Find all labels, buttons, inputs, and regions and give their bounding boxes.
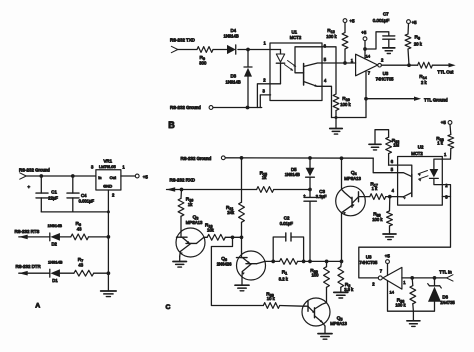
resistor R10 100k [333, 94, 351, 111]
wire RXD line [167, 189, 257, 191]
resistor R16 1k [178, 190, 193, 232]
wire VR1 GND down [107, 190, 109, 212]
diode D4 1N914B [224, 28, 239, 54]
junction [308, 156, 312, 160]
svg-text:+5: +5 [350, 19, 356, 24]
resistor R9 300 [197, 47, 213, 66]
VR1 pin 1 label [122, 165, 125, 170]
svg-text:MPSA13: MPSA13 [344, 176, 361, 181]
svg-text:+5: +5 [143, 174, 149, 179]
svg-text:3.9 k: 3.9 k [344, 287, 354, 292]
U1 pin 6 label [324, 44, 327, 49]
wire [19, 272, 50, 274]
wire U1 pin5 to U3 input [322, 62, 356, 64]
diode D1 1N914B [48, 259, 63, 283]
resistor R22 1M [375, 130, 400, 165]
junction [107, 235, 111, 239]
svg-text:TTL In: TTL In [439, 270, 452, 275]
svg-text:14: 14 [390, 290, 395, 295]
svg-text:100: 100 [312, 273, 320, 278]
junction [246, 106, 250, 110]
svg-text:+5: +5 [385, 254, 391, 259]
capacitor C2 0.01uF [273, 216, 303, 262]
capacitor C3 3.3uF [303, 189, 327, 262]
U2 pin 3 label [445, 194, 448, 199]
ground (section B) [330, 118, 343, 135]
U1 pin 4 label [324, 78, 327, 83]
svg-text:RS-232 RXD: RS-232 RXD [170, 178, 195, 183]
wire RS-232 ground rail (C) [225, 157, 373, 159]
power +5 terminal (A output) [135, 174, 148, 179]
svg-text:GND: GND [103, 184, 112, 189]
svg-text:1M: 1M [393, 142, 399, 147]
node RS-232 TXD input [170, 37, 195, 52]
U2 pin 2 label [445, 183, 448, 188]
svg-text:Out: Out [110, 175, 117, 180]
junction [271, 260, 275, 264]
svg-text:U3: U3 [383, 71, 389, 76]
U2 pin 1 label [444, 152, 447, 157]
wire [178, 49, 197, 51]
resistor R28 100k [372, 197, 392, 234]
ground (Q3) [173, 262, 187, 268]
svg-text:C4: C4 [81, 193, 87, 198]
U2 light arrows [418, 171, 428, 182]
svg-text:LM78L05: LM78L05 [99, 164, 116, 169]
inverter U3 74HCT05 (B) [356, 54, 395, 81]
resistor R15 1k [257, 171, 274, 193]
node RS-232 RTS [15, 229, 40, 239]
svg-text:1N914B: 1N914B [226, 80, 241, 85]
U1 internal LED [270, 50, 285, 84]
wire TTL ground rail [332, 117, 367, 119]
ground (Q5) [318, 334, 332, 340]
svg-text:B: B [168, 120, 175, 130]
junction [180, 188, 184, 192]
resistor R17 1k [370, 181, 386, 199]
wire U1 pin 4 to TTL ground rail [322, 86, 332, 117]
wire [238, 49, 270, 51]
resistor R8 20k [405, 24, 423, 66]
svg-text:D6: D6 [442, 294, 448, 299]
transistor Q4 MPSA13 [336, 158, 366, 261]
wire (A bottom rail) [41, 211, 108, 213]
svg-text:43: 43 [77, 226, 82, 231]
svg-text:1 k: 1 k [437, 141, 443, 146]
svg-text:RS-232 Ground: RS-232 Ground [19, 167, 50, 172]
wire U3C pin 14 down [388, 281, 414, 312]
section label B [168, 120, 175, 130]
U3C pin 7 label [380, 268, 383, 273]
ground (Q6) [235, 285, 249, 291]
svg-text:+5: +5 [361, 30, 367, 35]
wire Q3 collector [204, 236, 207, 238]
svg-text:0.001μF: 0.001μF [373, 18, 390, 23]
wire [26, 175, 96, 177]
svg-text:VR1: VR1 [104, 158, 113, 163]
wire [60, 236, 71, 238]
svg-text:100 k: 100 k [372, 217, 383, 222]
svg-text:1N914B: 1N914B [48, 259, 63, 264]
svg-text:1N4735: 1N4735 [440, 300, 455, 305]
svg-text:1N914B: 1N914B [48, 223, 63, 228]
node TTL Ground [366, 97, 448, 103]
svg-text:D4: D4 [231, 28, 237, 33]
svg-text:2 k: 2 k [421, 80, 427, 85]
wire [60, 272, 74, 274]
power +5 terminal (U3C pin 7) [385, 254, 391, 276]
node TTL Out [432, 63, 455, 75]
resistor R2 3.9k [338, 261, 354, 292]
wire U3B pin 7 down [365, 71, 367, 118]
U3B pin 2 label [381, 58, 384, 63]
diode D3 1N914B [226, 50, 253, 108]
resistor R26 100k [395, 278, 415, 311]
U1 pin 2 label [263, 77, 266, 82]
svg-text:8.2 k: 8.2 k [279, 277, 289, 282]
wire [89, 236, 109, 238]
node RS-232 RXD input [166, 178, 195, 192]
svg-text:TTL Ground: TTL Ground [424, 97, 448, 102]
svg-text:100 k: 100 k [326, 34, 337, 39]
resistor R1 8.2k [279, 259, 298, 282]
wire R29 to Q5 base [280, 305, 304, 308]
svg-text:C2: C2 [284, 216, 290, 221]
opto-coupler U2 MCT2 [398, 144, 443, 205]
wire node to R29 [211, 237, 263, 305]
svg-text:22μF: 22μF [48, 196, 58, 201]
wire [19, 236, 50, 238]
svg-text:300: 300 [199, 61, 207, 66]
svg-text:U3: U3 [366, 254, 372, 259]
U3C pin 14 label [390, 290, 395, 295]
diode D5 1N914B [285, 158, 315, 190]
wire [335, 111, 337, 118]
transistor Q3 MPSA13 [176, 215, 205, 257]
resistor R12 100k [326, 23, 348, 64]
svg-text:1N914B: 1N914B [224, 34, 239, 39]
power +5 terminal (R23) [441, 120, 452, 125]
junction [388, 195, 392, 199]
wire Q5 emitter to ground [324, 326, 326, 334]
resistor R14 2k [418, 62, 433, 85]
svg-text:D3: D3 [231, 74, 237, 79]
power +5 terminal (U3B pin 14) [361, 30, 367, 59]
svg-text:+: + [27, 185, 30, 190]
wire U2 pin2-pin3 tie [442, 185, 450, 197]
junction [302, 260, 306, 264]
junction [407, 63, 411, 67]
resistor R19 10k [205, 222, 225, 240]
svg-text:C1: C1 [51, 190, 57, 195]
svg-text:43: 43 [78, 263, 83, 268]
wire U1 pin 6 to R10 [322, 47, 336, 94]
node RS-232 DTR [16, 264, 41, 275]
junction [433, 276, 437, 280]
junction [240, 235, 244, 239]
svg-text:U2: U2 [418, 144, 424, 149]
junction [340, 260, 344, 264]
junction [308, 188, 312, 192]
junction [107, 210, 110, 213]
svg-text:TTL Out: TTL Out [437, 70, 454, 75]
svg-text:MPSA13: MPSA13 [186, 220, 203, 225]
wire (C mid rail) [298, 260, 342, 262]
junction [308, 260, 312, 264]
junction [246, 48, 250, 52]
svg-text:RS-232 TXD: RS-232 TXD [170, 37, 195, 42]
wire Q6 collector [265, 260, 280, 262]
section label C [166, 304, 171, 311]
U2 pin 6 label [391, 159, 394, 164]
power +5 terminal (R12) [343, 19, 355, 24]
resistor R29 10k [263, 291, 279, 308]
resistor R23 1k [436, 124, 453, 159]
junction [240, 156, 244, 160]
regulator VR1 LM78L05 [96, 158, 121, 190]
U1 pin 5 label [324, 57, 327, 62]
U2 internal LED [430, 159, 443, 185]
wire U1 pin 3 to ground [260, 95, 270, 108]
svg-text:C7: C7 [383, 12, 389, 17]
junction [410, 276, 414, 280]
ground (R22) [369, 144, 381, 150]
ground (section A) [101, 291, 117, 297]
wire U1 pin 2 to ground [257, 84, 280, 108]
node RS-232 Ground (B) [170, 105, 213, 110]
ground (R28) [383, 234, 396, 240]
junction [343, 61, 347, 65]
inverter U3 74HCT05 (C) [359, 254, 402, 289]
power +5 terminal (R8) [407, 20, 418, 25]
U3C pin 2 label [372, 281, 375, 286]
svg-text:+5: +5 [412, 20, 418, 25]
ground (C7) [383, 48, 395, 54]
resistor R21 24k [226, 158, 244, 237]
junction [363, 47, 367, 51]
U2 internal phototransistor [398, 165, 412, 199]
svg-text:74HCT05: 74HCT05 [376, 77, 395, 82]
svg-text:100 k: 100 k [395, 303, 406, 308]
svg-text:RS-232 RTS: RS-232 RTS [15, 229, 40, 234]
svg-text:D1: D1 [52, 278, 58, 283]
ground (R26/D6) [407, 311, 420, 326]
junction [231, 235, 235, 239]
zener diode D6 1N4735 [413, 278, 455, 311]
U1 pin 1 label [264, 40, 267, 45]
junction [335, 116, 338, 119]
resistor R6 43 [71, 221, 89, 240]
wire U3B output [381, 64, 417, 66]
capacitor C7 0.001uF [365, 12, 395, 49]
node RS-232 Ground (A) [19, 167, 50, 179]
svg-text:MCT2: MCT2 [290, 35, 302, 40]
U3B pin 14 label [366, 53, 371, 58]
svg-text:MPSA13: MPSA13 [330, 321, 347, 326]
transistor Q6 2N6426 [217, 237, 266, 280]
junction [325, 260, 329, 264]
junction [107, 271, 111, 275]
wire U2 pin3 to U3C output [359, 197, 451, 278]
capacitor C1 22uF [27, 176, 58, 212]
opto-coupler U1 MCT2 [270, 30, 322, 101]
svg-text:RS-232 Ground: RS-232 Ground [170, 105, 201, 110]
svg-text:1N914B: 1N914B [285, 172, 300, 177]
VR1 pin 2 label [112, 193, 115, 198]
wire [225, 236, 241, 238]
node TTL In [402, 270, 453, 281]
junction [340, 156, 344, 160]
svg-text:C: C [166, 304, 171, 311]
svg-text:A: A [35, 302, 40, 309]
U3B pin 1 label [351, 58, 354, 63]
U3C pin 1 label [403, 280, 406, 285]
wire [274, 189, 310, 191]
svg-text:0.001μF: 0.001μF [79, 199, 95, 204]
svg-text:100 k: 100 k [340, 102, 351, 107]
wire [94, 272, 109, 274]
svg-text:D2: D2 [52, 242, 58, 247]
svg-text:10k: 10k [207, 227, 215, 232]
VR1 pin 3 label [91, 165, 94, 170]
node RS-232 Ground (C) [181, 156, 226, 161]
resistor R20 100 [310, 261, 329, 302]
wire [386, 196, 398, 198]
U1 pin 3 label [263, 88, 266, 93]
svg-text:1 k: 1 k [372, 186, 378, 191]
svg-text:0.01μF: 0.01μF [280, 221, 294, 226]
wire (A ground trunk) [107, 212, 109, 291]
U3B pin 7 label [368, 71, 371, 76]
svg-text:3.3μF: 3.3μF [316, 194, 327, 199]
diode D2 1N914B [48, 223, 63, 247]
ground (R2) [334, 292, 348, 298]
svg-text:14: 14 [366, 53, 371, 58]
svg-text:10 k: 10 k [267, 296, 276, 301]
resistor R7 43 [74, 257, 94, 276]
wire [213, 49, 227, 51]
svg-text:24k: 24k [227, 210, 235, 215]
junction [39, 174, 43, 178]
svg-text:In: In [98, 175, 101, 180]
wire Q6 emitter to ground [241, 277, 243, 285]
svg-text:2N6426: 2N6426 [217, 261, 232, 266]
junction [71, 174, 75, 178]
wire [213, 107, 262, 109]
transistor Q5 MPSA13 [302, 298, 347, 326]
wire R22 to U2 pin 6 [389, 164, 398, 166]
wire to U2 pin 5 [373, 158, 397, 173]
svg-text:RS-232 DTR: RS-232 DTR [16, 264, 41, 269]
U2 pin 4 label [392, 188, 395, 193]
svg-text:74HCT05: 74HCT05 [359, 260, 378, 265]
wire Q4 base to R17 [365, 196, 370, 198]
section label A [35, 302, 40, 309]
svg-text:MCT2: MCT2 [411, 151, 423, 156]
svg-text:U1: U1 [292, 30, 298, 35]
wire VR1 out to +5 [121, 175, 135, 177]
U1 light arrows [285, 61, 297, 71]
U1 internal phototransistor [295, 47, 322, 87]
svg-text:20 k: 20 k [414, 42, 423, 47]
U2 pin 5 label [391, 167, 394, 172]
svg-text:+5: +5 [441, 120, 447, 125]
svg-text:RS-232 Ground: RS-232 Ground [181, 156, 212, 161]
capacitor C4 0.001uF [67, 176, 94, 212]
junction [364, 97, 368, 101]
wire Q3 emitter to ground [179, 256, 181, 261]
